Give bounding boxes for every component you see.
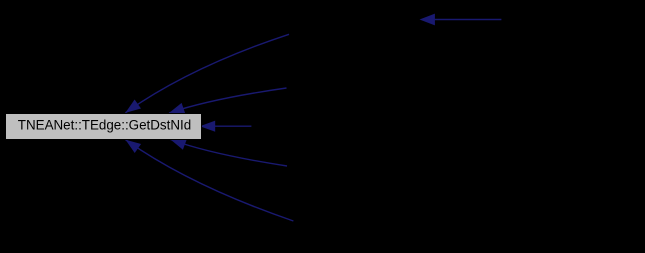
- svg-text:TNEANet::TEdge::GetDstNId: TNEANet::TEdge::GetDstNId: [18, 118, 191, 133]
